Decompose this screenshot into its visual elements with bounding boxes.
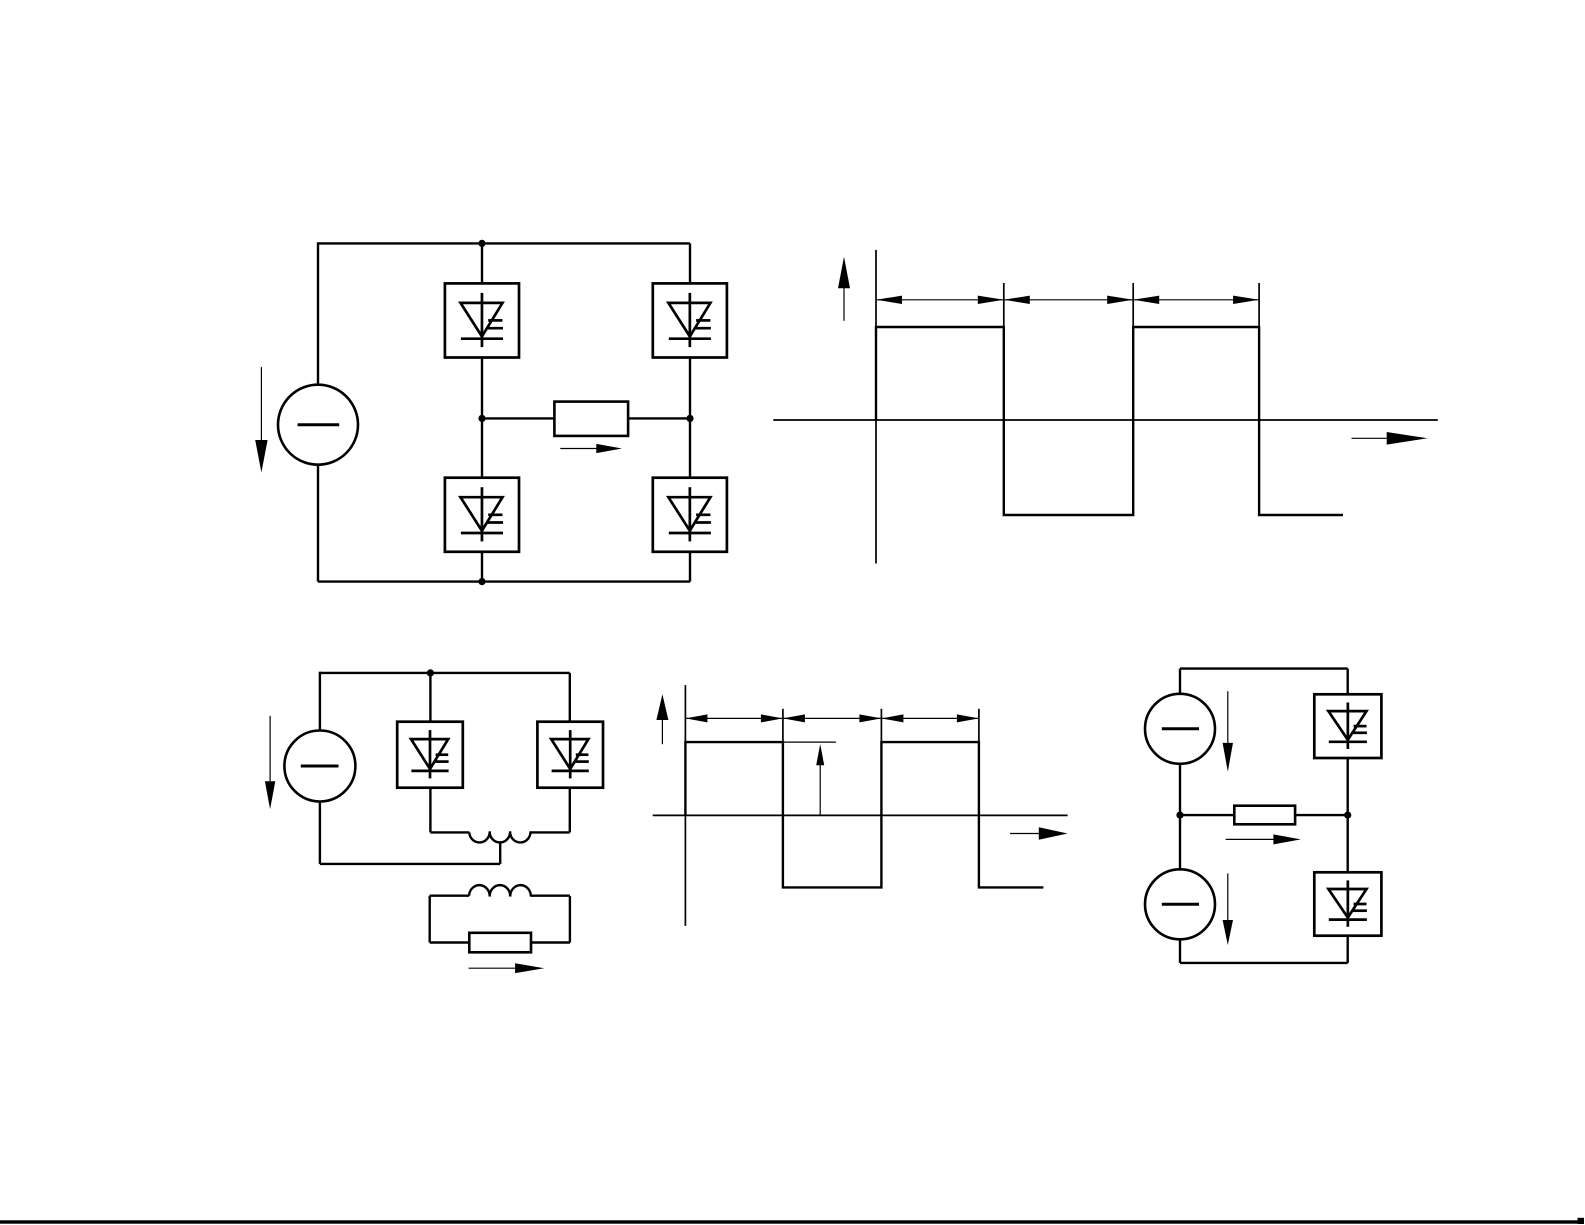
transformer T1 primary winding [469, 831, 530, 842]
square wave trace (waveform 2) [685, 742, 1043, 887]
wire secondary top-right (push-pull) [531, 895, 570, 897]
thyristor VS7 [1314, 694, 1381, 758]
voltage axis arrow (waveform 1) [838, 257, 850, 321]
wire right leg bottom (bridge) [689, 552, 691, 582]
tick extension t1 (waveform 2) [782, 709, 784, 742]
wire left rail bottom (half-bridge) [1179, 939, 1181, 963]
wire right leg top (half-bridge) [1346, 669, 1348, 695]
wire inner leg (push-pull) [429, 673, 431, 722]
wire right leg top (bridge) [689, 243, 691, 283]
tick extension t3 (waveform 1) [1258, 283, 1260, 327]
thyristor VS6 [537, 722, 603, 788]
wire load right (half-bridge) [1295, 814, 1348, 816]
wire right leg mid-lower (half-bridge) [1346, 815, 1348, 872]
half-period dimension 1 (waveform 1) [876, 296, 1004, 304]
load current arrow (half-bridge) [1226, 834, 1301, 844]
wire primary right (push-pull) [531, 831, 570, 833]
junction node B (bridge load right) [686, 415, 693, 422]
current arrow of source E2 [265, 716, 275, 809]
junction node A (bridge load left) [478, 415, 485, 422]
half-period dimension 1 (waveform 2) [685, 714, 783, 722]
wire bottom bus (half-bridge) [1180, 962, 1348, 964]
voltage source E1 [278, 385, 358, 465]
voltage source E4 [1145, 869, 1215, 939]
wire right leg bottom (half-bridge) [1346, 936, 1348, 963]
tick extension t1 (waveform 1) [1003, 283, 1005, 327]
half-period dimension 2 (waveform 1) [1004, 296, 1133, 304]
wire load left (half-bridge) [1180, 814, 1234, 816]
current arrow of source E4 [1223, 873, 1233, 945]
junction node top (push-pull) [427, 669, 434, 676]
wire bottom return (push-pull) [320, 863, 500, 865]
half-period dimension 2 (waveform 2) [783, 714, 882, 722]
wire primary left (push-pull) [430, 831, 469, 833]
square wave trace (waveform 1) [876, 327, 1343, 515]
transformer T1 secondary winding [469, 885, 531, 896]
voltage source E3 [1145, 694, 1215, 764]
junction node top (bridge) [478, 240, 485, 247]
wire VS6 to primary (push-pull) [569, 788, 571, 833]
wire inner leg bottom (bridge) [481, 552, 483, 582]
thyristor VS1 [445, 283, 519, 357]
thyristor VS8 [1314, 872, 1381, 935]
page footer rule [0, 1220, 1584, 1223]
thyristor VS4 [653, 478, 727, 552]
time axis arrow (waveform 2) [1010, 827, 1068, 840]
amplitude extension line (waveform 2) [783, 741, 836, 743]
wire secondary left (push-pull) [429, 896, 431, 943]
voltage source E2 [284, 731, 355, 802]
wire secondary bottom-right (push-pull) [531, 941, 570, 943]
wire left rail top (half-bridge) [1179, 669, 1181, 695]
junction node left (half-bridge) [1176, 812, 1183, 819]
wire top bus (half-bridge) [1180, 667, 1348, 669]
wire bottom bus (bridge) [318, 580, 690, 582]
wire secondary bottom-left (push-pull) [430, 941, 470, 943]
wire top bus (push-pull) [320, 672, 570, 674]
wire left rail lower (push-pull) [319, 801, 321, 864]
resistor Rload (push-pull) [469, 933, 531, 953]
tick extension t2 (waveform 2) [880, 709, 882, 742]
tick extension t2 (waveform 1) [1132, 283, 1134, 327]
current arrow of source E3 [1223, 691, 1233, 771]
vertical axis (waveform 2) [684, 685, 686, 926]
wire center tap (push-pull) [499, 841, 501, 864]
horizontal time axis (waveform 1) [773, 419, 1438, 421]
wire left rail upper (push-pull) [319, 672, 321, 731]
wire secondary top-left (push-pull) [430, 895, 469, 897]
load current arrow (bridge) [560, 444, 622, 453]
resistor Rload (half-bridge) [1234, 806, 1295, 825]
wire top bus (bridge) [318, 242, 690, 244]
wire VS5 to primary (push-pull) [429, 788, 431, 833]
junction node right (half-bridge) [1344, 812, 1351, 819]
wire left rail mid-lower (half-bridge) [1179, 815, 1181, 871]
wire load right (bridge) [628, 417, 690, 419]
load current arrow (push-pull) [469, 963, 545, 973]
current arrow of source E1 [255, 367, 267, 472]
vertical axis (waveform 1) [875, 250, 877, 564]
wire left rail mid-upper (half-bridge) [1179, 763, 1181, 815]
thyristor VS5 [397, 722, 463, 788]
wire left rail lower (bridge) [317, 465, 319, 582]
thyristor VS3 [445, 478, 519, 552]
wire right leg (push-pull) [569, 673, 571, 722]
half-period dimension 3 (waveform 1) [1133, 296, 1259, 304]
wire right leg middle (bridge) [689, 358, 691, 478]
wire left rail upper (bridge) [317, 242, 319, 385]
wire secondary right (push-pull) [569, 896, 571, 943]
wire inner leg top (bridge) [481, 243, 483, 283]
tick extension t3 (waveform 2) [978, 709, 980, 742]
half-period dimension 3 (waveform 2) [881, 714, 979, 722]
horizontal time axis (waveform 2) [653, 814, 1068, 816]
amplitude arrow (waveform 2) [816, 744, 824, 815]
wire inner leg middle (bridge) [481, 358, 483, 478]
wire load left (bridge) [482, 417, 554, 419]
wire right leg mid-upper (half-bridge) [1346, 758, 1348, 815]
time axis arrow (waveform 1) [1352, 432, 1428, 445]
thyristor VS2 [653, 283, 727, 357]
resistor Rload (bridge) [554, 402, 628, 436]
junction node bottom (bridge) [478, 578, 485, 585]
voltage axis arrow (waveform 2) [656, 694, 668, 744]
